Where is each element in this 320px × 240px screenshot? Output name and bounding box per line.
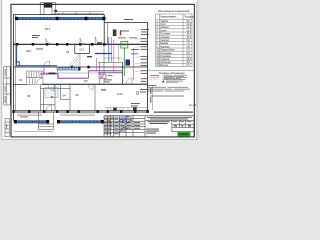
- dimension line under plan: [105, 106, 147, 108]
- corridor wall y84: [42, 83, 148, 85]
- dimension line bottom left: [13, 131, 53, 133]
- svg-text:Кабинет: Кабинет: [160, 27, 170, 29]
- blue riser left wall: [17, 45, 57, 66]
- svg-text:32,4: 32,4: [187, 34, 192, 36]
- svg-text:м 1:75: м 1:75: [189, 104, 197, 107]
- window lines below bottom wall: [17, 114, 95, 115]
- svg-text:О10: О10: [117, 92, 123, 96]
- svg-text:240: 240: [26, 49, 31, 53]
- paper sheet: [2, 0, 198, 139]
- wall x118.5: [118, 44, 120, 62]
- svg-text:Гостиная: Гостиная: [160, 34, 170, 36]
- svg-text:Холл: Холл: [160, 24, 166, 26]
- project name text lines: [146, 117, 192, 134]
- leader ticks right: [135, 30, 141, 72]
- purple run corridor: [40, 74, 89, 78]
- columns bottom wall: [12, 110, 148, 113]
- purple vertical x88.5: [88, 71, 90, 79]
- legend triangle: [162, 80, 165, 82]
- tray end squares top: [15, 17, 106, 20]
- cable tray top left: [16, 17, 55, 19]
- door arc corridor right: [126, 78, 132, 84]
- svg-text:18,5: 18,5: [187, 59, 192, 61]
- wall y58: [104, 57, 123, 59]
- panel box magenta outline: [99, 74, 106, 78]
- svg-text:Кладовая: Кладовая: [160, 56, 171, 58]
- svg-text:Спальня: Спальня: [160, 37, 170, 39]
- dim texts bottom right of plan: [131, 89, 148, 106]
- corridor wall y67: [13, 66, 147, 68]
- legend sample 3 pink dashed: [150, 79, 159, 81]
- svg-text:Терраса: Терраса: [160, 59, 170, 61]
- cable tray bottom left: [15, 121, 47, 123]
- table grid: [156, 14, 192, 67]
- svg-text:БТ1: БТ1: [45, 27, 51, 31]
- wall y72.8 center: [98, 72, 123, 74]
- small node square right of tray: [108, 121, 110, 123]
- small annotation left room: [32, 35, 43, 49]
- title block tiny texts: [104, 117, 131, 135]
- shower blue hatch: [45, 88, 58, 98]
- walls near shower: [60, 84, 62, 99]
- porch hatched box: [44, 3, 52, 8]
- purple vertical x44: [43, 67, 45, 75]
- svg-text:ЩР: ЩР: [100, 76, 104, 79]
- svg-text:16,1: 16,1: [187, 37, 192, 39]
- columns on wall y44: [16, 43, 105, 46]
- cable tray bottom right: [59, 121, 102, 123]
- svg-text:Тамбур: Тамбур: [160, 21, 169, 23]
- svg-text:Санузел: Санузел: [160, 40, 170, 42]
- magenta vertical x96.5: [96, 58, 98, 71]
- svg-text:06: 06: [27, 94, 31, 98]
- dark label on corridor: [49, 73, 56, 75]
- door arcs on wall y67: [44, 61, 50, 67]
- magenta wire right rooms: [133, 48, 135, 81]
- wall y88.5: [41, 88, 71, 90]
- interior wall y44: [13, 43, 147, 45]
- svg-text:06: 06: [76, 93, 80, 97]
- svg-text:Лестница: Лестница: [160, 62, 171, 64]
- columns on wall y67: [71, 66, 90, 69]
- svg-text:Балкон: Балкон: [160, 65, 168, 67]
- porch bottom: [39, 112, 54, 129]
- purple run to panel: [89, 70, 123, 72]
- notes block: [148, 85, 190, 96]
- small room O13: [74, 44, 76, 53]
- ladder text marks: [5, 69, 7, 129]
- blue L mark left: [16, 62, 20, 66]
- svg-text:12,8: 12,8: [187, 30, 192, 32]
- svg-text:ПК: ПК: [84, 79, 88, 83]
- legend sample 1 black line: [150, 75, 159, 77]
- svg-text:Наименование: Наименование: [160, 17, 177, 19]
- svg-text:Условные обозначения: Условные обозначения: [159, 72, 186, 75]
- blue feeder to panel: [95, 53, 112, 55]
- label above top wall: [54, 10, 57, 12]
- signature blue scribble: [119, 116, 132, 131]
- green riser: [123, 48, 125, 76]
- wall left of stair: [13, 84, 26, 86]
- svg-text:21,6: 21,6: [187, 24, 192, 26]
- svg-text:Кухня: Кухня: [160, 30, 167, 32]
- wall y62 center: [98, 61, 123, 63]
- vertical wall x104 corridor: [103, 44, 105, 84]
- top-right room walls: [103, 14, 105, 45]
- magenta vertical x57.6: [57, 70, 59, 78]
- tray dots: [59, 68, 75, 69]
- svg-text:Ванная: Ванная: [160, 43, 169, 45]
- door arcs on wall y44: [46, 37, 103, 44]
- cable tray top right: [57, 17, 103, 19]
- svg-text:14,2: 14,2: [187, 27, 192, 29]
- magenta vertical center: [113, 40, 115, 73]
- tray end squares bottom: [14, 120, 104, 123]
- corridor dotted tray: [57, 68, 79, 71]
- axis texts above title block: [113, 107, 136, 111]
- tray end block: [78, 67, 80, 71]
- red mark bottom bath: [51, 96, 53, 98]
- dimension line right below plan: [152, 85, 154, 110]
- room labels: [26, 27, 123, 98]
- room label small left: [101, 89, 106, 90]
- ramp hatched triangle: [68, 54, 80, 67]
- green cabinet box: [121, 41, 128, 48]
- svg-text:Котельная: Котельная: [160, 53, 172, 55]
- margin bottom-left stacked cells: [5, 119, 9, 137]
- blue vertical pair center: [108, 37, 110, 62]
- bottom wall double: [13, 110, 147, 112]
- socket symbol bottom: [136, 92, 139, 95]
- wall top main: [13, 14, 104, 16]
- window double lines top: [54, 11, 104, 13]
- border frame: [11, 4, 194, 137]
- window ticks top: [63, 12, 90, 15]
- door arc bottom wall: [46, 105, 52, 111]
- door arcs bottom band: [48, 85, 54, 91]
- separator line below table: [148, 70, 194, 72]
- margin ladder block (Podp i data / Inv N): [4, 67, 11, 106]
- vertical wall x122.5: [122, 62, 124, 84]
- legend sample 2 magenta line: [150, 77, 159, 79]
- doc number line above title block: [154, 112, 193, 113]
- svg-text:О13: О13: [79, 48, 84, 52]
- right paper inner line: [195, 2, 197, 139]
- hatched box in right room: [113, 30, 117, 37]
- wall y73 thin: [44, 72, 104, 74]
- callouts near panel: [104, 19, 139, 82]
- left wall double: [12, 14, 14, 120]
- table cell texts: [156, 17, 194, 68]
- sign column scribbles: [134, 122, 140, 129]
- staircase: [27, 71, 44, 85]
- svg-text:Коридор: Коридор: [160, 46, 170, 48]
- svg-text:Экспликация помещений: Экспликация помещений: [158, 9, 190, 13]
- green company logo: [177, 132, 190, 137]
- svg-text:Площадь: Площадь: [184, 17, 195, 19]
- wall x99.8: [99, 62, 101, 84]
- svg-text:Гардеробная: Гардеробная: [160, 50, 175, 52]
- red symbol right room: [120, 30, 122, 35]
- svg-text:03: 03: [66, 50, 70, 54]
- dark blue panel blob: [126, 60, 131, 66]
- interior small rooms bottom band: [41, 84, 96, 111]
- svg-text:04: 04: [63, 94, 67, 98]
- stage cells: [173, 120, 192, 123]
- porch top structure: [40, 3, 56, 15]
